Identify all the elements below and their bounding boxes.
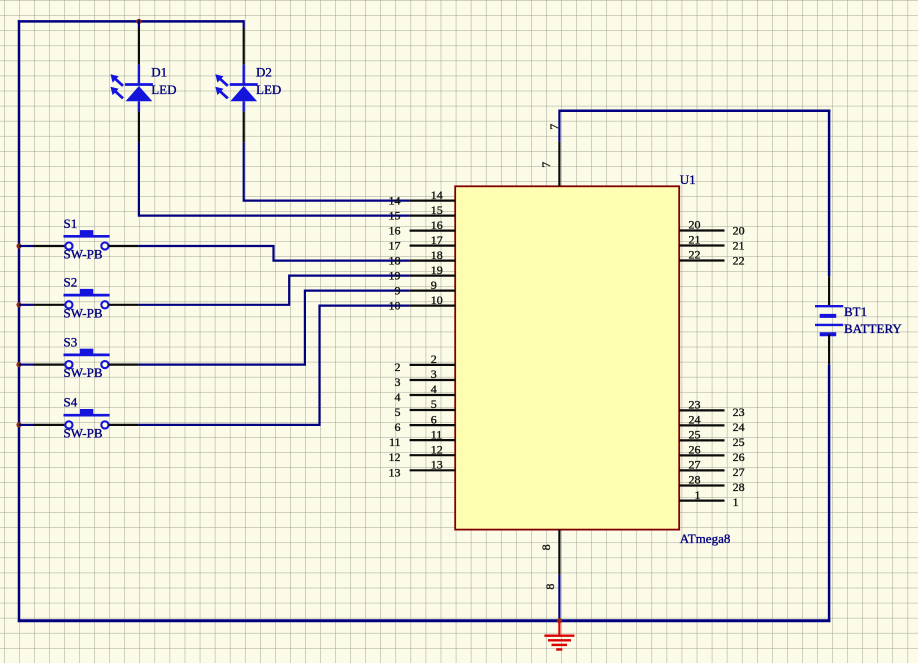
svg-text:1: 1 xyxy=(695,488,701,502)
pin 18 stub (U1 left) xyxy=(410,260,456,262)
op IC U1 ATmega8 body xyxy=(455,186,679,529)
pin 2 stub (U1 left) xyxy=(410,364,456,366)
battery BT1 xyxy=(815,276,843,364)
svg-text:19: 19 xyxy=(431,263,443,277)
ground (power ground symbol) xyxy=(544,621,574,650)
wire: right rail upper (battery +) xyxy=(828,110,831,277)
wire: right rail lower (battery -) xyxy=(828,364,831,622)
pin 21 stub (U1 right) xyxy=(679,244,724,246)
wire: S2 to U1 xyxy=(139,276,410,305)
svg-text:6: 6 xyxy=(431,412,437,426)
switch S2 SW-PB xyxy=(33,289,139,309)
svg-text:4: 4 xyxy=(431,382,437,396)
svg-text:21: 21 xyxy=(689,233,701,247)
pin 28 stub (U1 right) xyxy=(679,484,724,486)
junction at S2 / left rail xyxy=(16,302,21,307)
pin 5 stub (U1 left) xyxy=(410,409,456,411)
svg-text:22: 22 xyxy=(689,248,701,262)
svg-text:5: 5 xyxy=(431,397,437,411)
switch S3 SW-PB xyxy=(33,349,139,369)
wire: D1 top stub xyxy=(138,20,140,28)
pin 25 stub (U1 right) xyxy=(679,439,724,441)
svg-text:SW-PB: SW-PB xyxy=(64,247,103,262)
svg-text:24: 24 xyxy=(733,420,745,434)
svg-text:28: 28 xyxy=(733,480,745,494)
svg-text:14: 14 xyxy=(431,188,443,202)
svg-text:24: 24 xyxy=(689,413,701,427)
svg-text:8: 8 xyxy=(539,544,553,550)
wire: top rail VCC xyxy=(18,20,244,23)
svg-text:18: 18 xyxy=(389,254,401,268)
svg-text:4: 4 xyxy=(395,390,401,404)
svg-text:2: 2 xyxy=(395,360,401,374)
svg-text:S4: S4 xyxy=(64,395,78,410)
pin 22 stub (U1 right) xyxy=(679,259,724,261)
svg-text:SW-PB: SW-PB xyxy=(64,305,103,320)
pin 12 stub (U1 left) xyxy=(410,454,456,456)
pin 15 stub (U1 left) xyxy=(410,215,456,217)
pin 10 stub (U1 left) xyxy=(410,305,456,307)
junction at S3 / left rail xyxy=(16,362,21,367)
svg-text:S3: S3 xyxy=(64,334,78,349)
svg-text:27: 27 xyxy=(733,465,745,479)
svg-text:7: 7 xyxy=(547,124,561,130)
junction at D1 / top rail xyxy=(136,19,141,24)
pin 14 stub (U1 left) xyxy=(410,200,456,202)
svg-text:12: 12 xyxy=(431,442,443,456)
svg-text:20: 20 xyxy=(733,224,745,238)
svg-text:15: 15 xyxy=(389,209,401,223)
svg-text:ATmega8: ATmega8 xyxy=(680,531,731,546)
svg-text:14: 14 xyxy=(389,194,401,208)
pin 27 stub (U1 right) xyxy=(679,469,724,471)
svg-text:7: 7 xyxy=(539,162,553,168)
svg-text:8: 8 xyxy=(543,584,557,590)
svg-text:10: 10 xyxy=(389,299,401,313)
svg-text:16: 16 xyxy=(389,224,401,238)
svg-text:S2: S2 xyxy=(64,275,78,290)
svg-text:25: 25 xyxy=(733,435,745,449)
pin 13 stub (U1 left) xyxy=(410,469,456,471)
svg-text:26: 26 xyxy=(689,443,701,457)
wire: left rail to S3 xyxy=(19,364,33,366)
svg-text:28: 28 xyxy=(689,473,701,487)
svg-text:9: 9 xyxy=(395,284,401,298)
svg-text:10: 10 xyxy=(431,293,443,307)
svg-text:25: 25 xyxy=(689,428,701,442)
svg-text:19: 19 xyxy=(389,269,401,283)
LED D1 xyxy=(111,28,153,142)
svg-text:3: 3 xyxy=(395,375,401,389)
pin 4 stub (U1 left) xyxy=(410,394,456,396)
svg-text:26: 26 xyxy=(733,450,745,464)
pin 6 stub (U1 left) xyxy=(410,424,456,426)
pin 24 stub (U1 right) xyxy=(679,424,724,426)
svg-text:13: 13 xyxy=(431,458,443,472)
wire: D1 anode to U1 xyxy=(139,142,410,215)
switch S4 SW-PB xyxy=(33,409,139,429)
svg-text:17: 17 xyxy=(431,233,443,247)
svg-text:23: 23 xyxy=(689,398,701,412)
svg-text:6: 6 xyxy=(395,420,401,434)
wire: S3 to U1 xyxy=(139,291,410,365)
svg-text:BATTERY: BATTERY xyxy=(844,321,902,336)
svg-text:18: 18 xyxy=(431,248,443,262)
pin 20 stub (U1 right) xyxy=(679,229,724,231)
svg-text:15: 15 xyxy=(431,203,443,217)
wire: S4 to U1 xyxy=(139,306,410,425)
wire: left rail to S1 xyxy=(19,245,33,247)
wire: left rail to S4 xyxy=(19,424,33,426)
pin 3 stub (U1 left) xyxy=(410,379,456,381)
pin 17 stub (U1 left) xyxy=(410,245,456,247)
svg-text:11: 11 xyxy=(431,427,443,441)
svg-text:LED: LED xyxy=(256,82,281,97)
svg-text:2: 2 xyxy=(431,352,437,366)
svg-text:1: 1 xyxy=(733,495,739,509)
pin 23 stub (U1 right) xyxy=(679,409,724,411)
svg-text:21: 21 xyxy=(733,239,745,253)
pin 1 stub (U1 right) xyxy=(679,500,724,502)
svg-text:S1: S1 xyxy=(64,216,78,231)
wire: pin 7 to VCC xyxy=(558,110,560,142)
LED D2 xyxy=(215,28,257,142)
junction at S1 / left rail xyxy=(16,243,21,248)
pin 26 stub (U1 right) xyxy=(679,454,724,456)
pin 9 stub (U1 left) xyxy=(410,290,456,292)
svg-text:U1: U1 xyxy=(680,172,696,187)
svg-text:12: 12 xyxy=(389,450,401,464)
svg-text:16: 16 xyxy=(431,218,443,232)
pin 11 stub (U1 left) xyxy=(410,439,456,441)
wire: left rail to S2 xyxy=(19,304,33,306)
wire: S1 to U1 xyxy=(139,246,410,261)
svg-text:SW-PB: SW-PB xyxy=(64,426,103,441)
pin 8 stub (U1 bottom) xyxy=(558,530,560,575)
svg-text:17: 17 xyxy=(389,239,401,253)
svg-text:3: 3 xyxy=(431,367,437,381)
svg-text:13: 13 xyxy=(389,465,401,479)
pin 19 stub (U1 left) xyxy=(410,275,456,277)
wire: D2 anode to U1 xyxy=(244,142,410,200)
svg-text:5: 5 xyxy=(395,405,401,419)
pin 16 stub (U1 left) xyxy=(410,230,456,232)
svg-text:9: 9 xyxy=(431,278,437,292)
svg-text:27: 27 xyxy=(689,458,701,472)
wire: D2 top stub xyxy=(243,20,245,28)
wire: top-right horizontal to battery xyxy=(559,109,830,112)
junction at S4 / left rail xyxy=(16,422,21,427)
svg-text:D1: D1 xyxy=(151,65,167,80)
pin 7 stub (U1 top) xyxy=(558,142,560,187)
svg-text:SW-PB: SW-PB xyxy=(64,365,103,380)
switch S1 SW-PB xyxy=(33,230,139,249)
svg-text:D2: D2 xyxy=(256,65,272,80)
svg-text:11: 11 xyxy=(389,435,401,449)
wire: bottom rail GND xyxy=(18,619,831,622)
junction at ground / bottom rail xyxy=(557,618,562,623)
svg-text:LED: LED xyxy=(151,82,176,97)
svg-text:22: 22 xyxy=(733,254,745,268)
svg-text:BT1: BT1 xyxy=(844,304,867,319)
wire: pin 8 to GND xyxy=(558,575,560,621)
svg-text:20: 20 xyxy=(689,218,701,232)
svg-text:23: 23 xyxy=(733,405,745,419)
wire: left rail xyxy=(18,20,21,622)
